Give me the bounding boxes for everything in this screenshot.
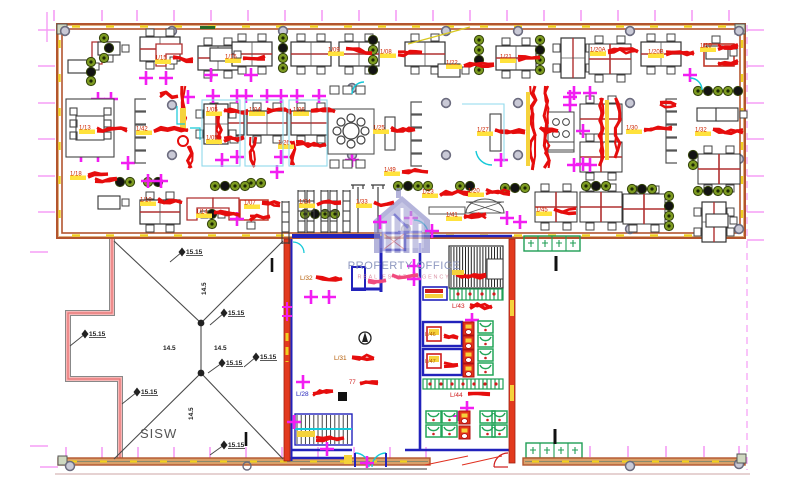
svg-text:1/33: 1/33 [356, 200, 368, 206]
yellow diagonal line top [408, 27, 470, 44]
magenta cross bathroom lower [460, 401, 474, 415]
svg-text:14.5: 14.5 [201, 282, 208, 295]
label 1/21 [500, 59, 516, 64]
cyan zone outlines around mid pods [202, 100, 504, 166]
watermark pink scribbles [392, 275, 418, 278]
label 1/22 [446, 65, 462, 70]
label 1/32 [695, 132, 711, 137]
SISW room left wall (stepped) [68, 239, 120, 459]
roof tick mark I upper [271, 258, 274, 272]
plant circles group A [86, 33, 697, 230]
svg-text:1/20A: 1/20A [590, 48, 606, 54]
svg-text:L/43: L/43 [452, 303, 465, 310]
terrace tick I bottom [554, 429, 557, 444]
wall corner boxes [57, 24, 745, 34]
label 1/19 [700, 48, 716, 53]
storage rack ladders [282, 201, 289, 244]
coat stand 2 [371, 185, 385, 233]
label 1/09 [328, 52, 344, 57]
desk pod 1 [140, 29, 180, 69]
north symbol [359, 332, 371, 344]
svg-text:1/08: 1/08 [380, 50, 392, 56]
magenta cross markers office [74, 68, 697, 226]
svg-text:1/41: 1/41 [446, 213, 458, 219]
structural columns (gray circles) [61, 27, 744, 234]
grid dashed line right vertical [746, 25, 748, 470]
wall yellow dashes [60, 27, 743, 236]
svg-text:1/25: 1/25 [373, 126, 385, 132]
svg-text:1/05: 1/05 [206, 136, 218, 142]
label 1/07 [244, 205, 260, 210]
svg-text:1/45: 1/45 [536, 208, 548, 214]
desk 6 [706, 214, 737, 227]
cyan door arc core top-left [293, 242, 304, 253]
half-round reception table [466, 199, 504, 213]
svg-text:15.15: 15.15 [260, 354, 277, 361]
desk pod 8 [553, 38, 593, 78]
roof annotation note 5 [122, 392, 137, 404]
pink grid line near top-left corner [46, 12, 48, 42]
zigzag shelf 3 [666, 99, 677, 163]
magenta cross bathroom upper [465, 313, 479, 327]
core left wall blue edge [291, 239, 293, 461]
desk 1 [98, 42, 129, 55]
terrace bottom wall [523, 458, 745, 465]
roof annotation note 4 [244, 357, 256, 367]
desk pod 2 [198, 38, 238, 78]
desk 8 [210, 48, 241, 61]
roof hip lines (X pattern) [114, 241, 283, 459]
svg-text:1/09: 1/09 [328, 48, 340, 54]
magenta cross near L/28 [296, 375, 310, 389]
grid tick bottom-left corner [40, 466, 58, 468]
label 1/15 [155, 60, 171, 65]
svg-text:15.15: 15.15 [141, 389, 158, 396]
svg-text:14.5: 14.5 [214, 345, 227, 352]
red L-desk top area [92, 42, 118, 64]
svg-text:15.15: 15.15 [228, 310, 245, 317]
desk pod 17 [140, 192, 180, 232]
svg-text:1/20B: 1/20B [648, 50, 664, 56]
svg-text:1/42: 1/42 [136, 127, 148, 133]
label 1/20 [468, 193, 484, 198]
label 1/20B [648, 54, 664, 59]
label 1/49 [384, 172, 400, 177]
core left wall red [284, 239, 290, 461]
svg-text:1/34: 1/34 [299, 200, 311, 206]
lower bathroom fixtures left green [426, 411, 457, 437]
roof annotation note 7 [210, 445, 224, 455]
magenta crosses left of core [407, 259, 421, 273]
right wall yellow dashes [510, 300, 514, 316]
roof annotation note 2 [210, 313, 224, 325]
white cabinet row [429, 207, 465, 214]
magenta crosses pair [304, 290, 318, 304]
svg-text:1/49: 1/49 [384, 168, 396, 174]
entry vestibule walls [394, 214, 422, 232]
terrace railing bottom (green comb) [526, 443, 582, 458]
roof node dots [198, 320, 205, 327]
red vertical scribble tall 1 [181, 86, 184, 126]
roof annotation note 3 [208, 363, 222, 373]
zigzag shelf 2 [411, 102, 422, 166]
roof annotation note 6 [70, 334, 85, 346]
svg-text:15.15: 15.15 [186, 249, 203, 256]
label 1/27 [477, 132, 493, 137]
svg-text:1/19: 1/19 [700, 44, 712, 50]
desk pod 15 [580, 134, 622, 180]
stairwell red scribble [456, 273, 486, 277]
wc fixtures right column green [478, 321, 493, 375]
red vertical scribble between pods [250, 137, 256, 167]
label 1/16 [225, 59, 241, 64]
red vertical scribble pod 1 [218, 116, 221, 144]
zigzag shelf 1 [135, 99, 146, 163]
cyan door arcs office [176, 78, 702, 316]
lower bathroom fixtures right green [480, 411, 507, 437]
desk pod 10 [641, 34, 681, 74]
label 1/14 [196, 214, 212, 219]
terrace wall yellow dashes [532, 460, 719, 462]
label 1/42 [136, 131, 152, 136]
svg-text:1/30: 1/30 [626, 126, 638, 132]
stairs lower-left of core [295, 414, 352, 445]
watermark house logo [374, 188, 430, 253]
magenta crosses on core left wall [282, 302, 292, 312]
label 1/41 [446, 217, 462, 222]
grid ticks bottom SISW edge [66, 446, 739, 458]
desk pod 5 [339, 34, 379, 74]
label 1/23 [422, 194, 438, 199]
stall box lower [423, 349, 462, 375]
meeting room left [66, 99, 114, 157]
desk 3 [438, 64, 469, 77]
svg-text:1/18: 1/18 [70, 172, 82, 178]
terrace tick I top [555, 256, 558, 271]
roof annotation note 1 [170, 252, 182, 262]
svg-text:L/46: L/46 [425, 332, 436, 338]
svg-text:1/13: 1/13 [79, 126, 91, 132]
terrace railing top (green comb) [524, 236, 580, 251]
core bottom red door diagonals [425, 456, 502, 465]
SISW bottom wall [58, 458, 430, 465]
label 1/04 [249, 112, 265, 117]
desk pod 13 [291, 103, 331, 143]
entry magenta cross [513, 215, 527, 229]
bottom wall yellow dashes [70, 460, 407, 462]
label 1/45 [536, 212, 552, 217]
left edge ticks lower [30, 252, 48, 446]
label 1/10 [140, 202, 156, 207]
label 1/18 [70, 176, 86, 181]
label 1/05 [206, 140, 222, 145]
upper-right blue room [383, 233, 405, 250]
left service room [423, 287, 447, 300]
red desk top-right 1/19 [704, 44, 734, 66]
svg-text:1/07: 1/07 [244, 201, 256, 207]
door arc bottom right of core [494, 453, 508, 467]
red vertical scribble mid 2 [188, 146, 192, 168]
red vertical scribble tall 2 [530, 86, 536, 170]
desk pod 18 [535, 184, 577, 230]
cyan lines near red arrow [177, 106, 200, 140]
svg-text:1/23: 1/23 [422, 190, 434, 196]
svg-text:1/27: 1/27 [477, 128, 489, 134]
svg-text:14.5: 14.5 [163, 345, 176, 352]
red vertical scribbles desk block left [599, 98, 603, 166]
red circle marker [178, 136, 188, 146]
grid tick marks top edge [54, 10, 729, 21]
bottom wall corner circle left [58, 456, 67, 465]
grid tick marks right edge [747, 30, 764, 240]
desk pod 4 [291, 34, 331, 74]
core top wall blue [292, 234, 380, 238]
desk pod 6 [405, 34, 445, 74]
bathroom core outline walls [405, 236, 512, 450]
desk pod 16 [196, 104, 236, 144]
office outer wall [57, 24, 745, 238]
plant circles group B (rows) [210, 86, 742, 218]
svg-text:1/14: 1/14 [196, 210, 208, 216]
label 1/25 [373, 130, 389, 135]
svg-text:L/28: L/28 [296, 391, 309, 398]
red vertical scribble tall 3 [544, 86, 549, 168]
label 1/34 [299, 204, 315, 209]
label 1/08 [380, 54, 396, 59]
lower bathroom fixtures middle red [459, 411, 470, 439]
label 1/20A [590, 52, 606, 57]
desk pod 20 [623, 186, 665, 232]
terrace wall circles [626, 462, 635, 471]
small blue box [352, 267, 365, 290]
label 1/30 [626, 130, 642, 135]
svg-text:15.15: 15.15 [228, 442, 245, 449]
svg-text:14.5: 14.5 [188, 407, 195, 420]
svg-text:1/05: 1/05 [206, 108, 218, 114]
svg-text:1/15: 1/15 [155, 56, 167, 62]
svg-text:1/32: 1/32 [695, 128, 707, 134]
svg-text:15.15: 15.15 [226, 360, 243, 367]
desk pod 7 [496, 38, 536, 78]
bathroom right wall red [509, 239, 515, 463]
desk pod 22 [694, 202, 734, 242]
wc fixtures middle column red [463, 322, 474, 377]
desk pod 14 [580, 96, 622, 142]
desk 2 [68, 60, 99, 73]
desk pod 11 [204, 103, 244, 143]
desk pod 9 [589, 36, 631, 82]
tall desk center right [490, 114, 501, 151]
svg-text:L/47: L/47 [425, 359, 436, 365]
red squiggle extras [95, 61, 738, 221]
svg-text:SISW: SISW [140, 426, 177, 441]
coat stand 1 [351, 185, 365, 233]
svg-text:PROPERTY OFFICE: PROPERTY OFFICE [348, 260, 461, 272]
desk pod 3 [232, 34, 272, 74]
stall box upper [423, 322, 462, 346]
bottom boundary gray line [55, 473, 750, 475]
svg-text:L/32: L/32 [300, 275, 313, 282]
svg-text:1/22: 1/22 [446, 61, 458, 67]
label 1/33 [356, 204, 372, 209]
yellow door mark core bottom wall [344, 455, 352, 464]
svg-text:L/44: L/44 [450, 392, 463, 399]
svg-text:1/04: 1/04 [249, 108, 261, 114]
roof tick mark I lower [245, 432, 248, 446]
red vertical scribble pod 3 [291, 141, 294, 165]
core inner wall vertical blue [353, 236, 381, 292]
dark green dash on top wall [200, 26, 215, 29]
svg-text:1/10: 1/10 [140, 198, 152, 204]
desk pod 19 [580, 184, 622, 230]
red L-desk group bottom-left [187, 198, 213, 220]
label 1/13 [79, 130, 95, 135]
desk 9 [716, 108, 747, 121]
chairs below round table [330, 86, 365, 168]
core bottom walls [292, 450, 352, 458]
bottom wall circle mid [243, 462, 251, 470]
green glazing band lower [423, 379, 503, 389]
svg-text:1/16: 1/16 [225, 55, 237, 61]
red vertical scribble block 2 [615, 98, 620, 158]
svg-text:1/21: 1/21 [500, 55, 512, 61]
svg-text:1/06: 1/06 [293, 108, 305, 114]
magenta crosses near entry [373, 215, 387, 229]
svg-text:1/20: 1/20 [468, 189, 480, 195]
desk pod 21 [698, 146, 740, 192]
svg-text:15.15: 15.15 [89, 331, 106, 338]
svg-text:77: 77 [349, 380, 356, 386]
gray line below core walls [300, 468, 427, 470]
yellow dash core left wall [286, 333, 289, 362]
round table room [328, 109, 374, 154]
desk 7 [98, 196, 129, 209]
door arcs bottom [355, 453, 386, 467]
label 1/06 [293, 112, 309, 117]
svg-text:L/31: L/31 [334, 355, 347, 362]
desk 5 [697, 108, 728, 121]
magenta crosses core bottom [320, 442, 334, 456]
stairwell hatching [449, 246, 503, 288]
grid tick marks left edge [38, 30, 55, 212]
label 1/26 [278, 145, 294, 150]
desk 4 [706, 46, 737, 59]
tall desk near round table [385, 117, 395, 150]
kitchenette items [548, 112, 574, 152]
green glazing band upper [450, 289, 503, 300]
desk pod 12 [247, 103, 287, 143]
label 1/05 [206, 112, 222, 117]
